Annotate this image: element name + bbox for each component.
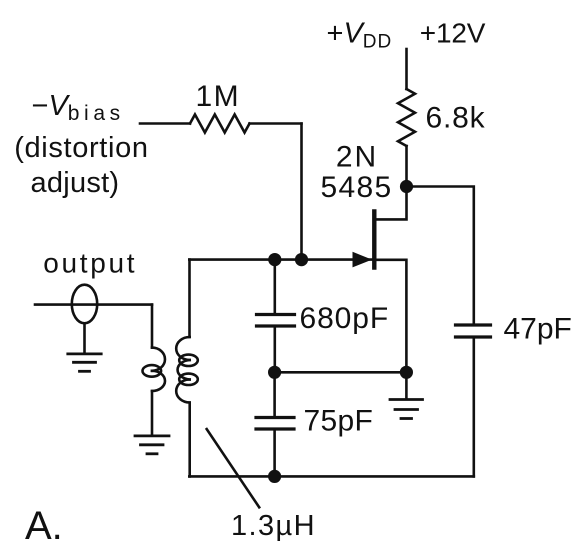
svg-text:−Vbias: −Vbias (32, 90, 125, 125)
wire primary coil to bottom rail (188, 403, 191, 477)
wire resistor to drain node (405, 146, 408, 187)
svg-text:5485: 5485 (321, 171, 393, 204)
wire 680pF to mid rail (273, 328, 276, 373)
node drain junction (400, 180, 413, 193)
transistor Q1 source lead (376, 260, 406, 373)
svg-text:output: output (43, 247, 137, 278)
svg-text:680pF: 680pF (300, 302, 390, 335)
resistor R 1M (190, 115, 250, 133)
transistor Q1 gate arrow (353, 252, 373, 268)
svg-text:75pF: 75pF (304, 405, 374, 438)
wire bottom rail (189, 475, 474, 478)
ground under output (68, 354, 101, 371)
svg-text:(distortion: (distortion (14, 132, 148, 164)
wire 75pF branch (273, 372, 276, 416)
callout line to 1.3uH (207, 429, 260, 507)
capacitor C 47pF (456, 325, 491, 337)
node gate junction B (295, 253, 308, 266)
wire gate rail (189, 258, 371, 261)
wire 1M to gate node (250, 122, 302, 125)
wire secondary to ground (151, 391, 154, 436)
node bottom rail junction (268, 470, 281, 483)
inductor L primary coil (176, 337, 198, 403)
ground under source node (390, 372, 423, 418)
resistor R 6.8k (398, 89, 415, 146)
wire output ellipse stem (83, 323, 86, 353)
capacitor C 680pF (257, 315, 295, 327)
svg-text:1M: 1M (196, 80, 241, 113)
svg-text:2N: 2N (336, 140, 378, 173)
capacitor C 75pF (256, 418, 294, 430)
wire 680pF branch top (273, 260, 276, 314)
wire drain lead (376, 193, 407, 219)
inductor L secondary coil (143, 348, 166, 391)
wire tank left vertical (188, 260, 191, 337)
svg-text:adjust): adjust) (31, 167, 120, 199)
node mid rail left junction (268, 366, 281, 379)
wire output lead (35, 303, 152, 306)
transistor Q1 2N5485 channel bar (372, 211, 376, 267)
svg-text:+12V: +12V (420, 17, 486, 48)
wire drain node to 47pF branch (407, 187, 474, 324)
label +VDD (327, 17, 393, 52)
svg-text:1.3µH: 1.3µH (231, 510, 316, 542)
output port ellipse (72, 285, 97, 324)
svg-text:47pF: 47pF (504, 312, 572, 345)
wire secondary top (151, 305, 154, 348)
svg-text:+VDD: +VDD (327, 17, 393, 52)
node +VDD supply wire (405, 49, 408, 89)
svg-text:6.8k: 6.8k (426, 102, 486, 135)
wire 75pF to bottom rail (273, 431, 276, 477)
wire bias input (140, 122, 190, 125)
ground under secondary (135, 436, 169, 454)
wire 1M branch vertical (300, 124, 303, 260)
wire mid rail (275, 371, 407, 374)
wire 47pF to bottom rail (472, 339, 475, 477)
node source junction (400, 366, 413, 379)
label -Vbias (32, 90, 125, 125)
node gate junction A (268, 253, 281, 266)
svg-text:A.: A. (25, 504, 63, 548)
